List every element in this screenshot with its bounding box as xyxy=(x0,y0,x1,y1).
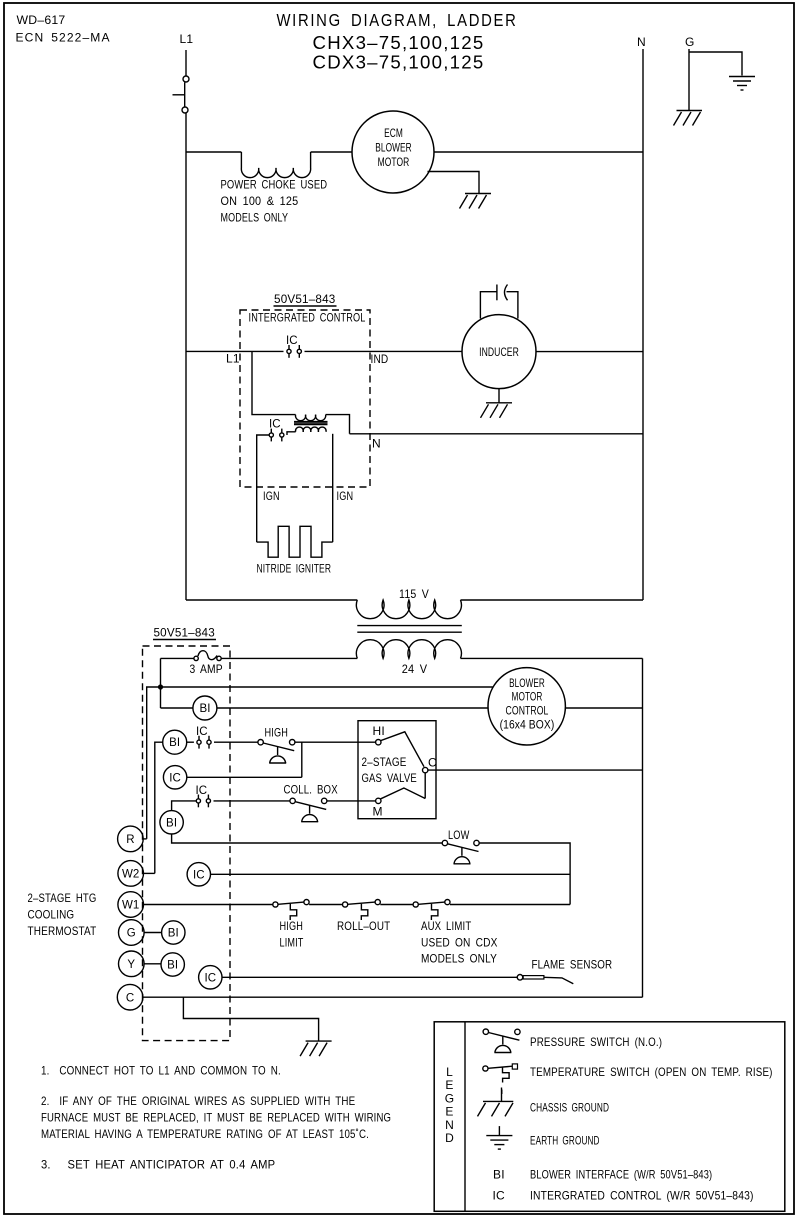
svg-text:50V51–843: 50V51–843 xyxy=(154,626,216,640)
svg-text:PRESSURE SWITCH (N.O.): PRESSURE SWITCH (N.O.) xyxy=(530,1035,662,1049)
contact IC on rung 2 xyxy=(287,345,302,358)
svg-text:ROLL–OUT: ROLL–OUT xyxy=(337,919,391,933)
svg-text:50V51–843: 50V51–843 xyxy=(274,292,336,306)
wire motor to N xyxy=(434,151,643,153)
svg-text:24 V: 24 V xyxy=(402,662,428,676)
svg-text:FLAME SENSOR: FLAME SENSOR xyxy=(532,958,613,972)
wire lower right rail xyxy=(642,658,644,997)
svg-text:HI: HI xyxy=(373,724,385,738)
disconnect switch tick xyxy=(173,94,185,96)
flame sensor contact xyxy=(517,975,523,981)
svg-text:L: L xyxy=(446,1065,453,1079)
wire rung 3 to N rail xyxy=(350,433,644,435)
svg-text:IGN: IGN xyxy=(263,489,280,503)
transformer T2 primary winding xyxy=(356,600,461,619)
svg-text:GAS VALVE: GAS VALVE xyxy=(362,771,417,785)
wire rung 3 to motor control xyxy=(217,707,488,709)
wire HIGH switch to gas valve HI xyxy=(295,741,376,743)
terminal HI xyxy=(376,740,381,745)
svg-text:HIGH: HIGH xyxy=(265,726,289,740)
chassis ground symbol bottom xyxy=(300,1041,332,1056)
pressure switch LOW xyxy=(442,840,479,864)
svg-text:IGN: IGN xyxy=(337,489,354,503)
wire valve C to right rail xyxy=(428,769,643,771)
wire rung 2 right to inducer xyxy=(305,350,463,352)
svg-text:3. SET HEAT ANTICIPATOR AT 0: 3. SET HEAT ANTICIPATOR AT 0.4 AMP xyxy=(41,1158,275,1172)
terminal C valve xyxy=(423,767,428,772)
svg-text:N: N xyxy=(637,35,646,49)
svg-text:ECM: ECM xyxy=(384,128,403,140)
svg-text:USED ON CDX: USED ON CDX xyxy=(421,936,498,950)
svg-text:E: E xyxy=(445,1105,453,1119)
wire rung6 to COLL BOX switch xyxy=(214,800,290,802)
svg-text:EARTH GROUND: EARTH GROUND xyxy=(530,1134,600,1148)
legend divider xyxy=(464,1022,466,1212)
temperature switch HIGH LIMIT xyxy=(273,900,309,921)
interface BI circle rung3 xyxy=(193,696,217,720)
wire igniter right lead xyxy=(332,434,334,542)
wire rung R feed xyxy=(147,687,493,839)
svg-text:C: C xyxy=(126,992,134,1004)
svg-text:E: E xyxy=(445,1078,453,1092)
svg-text:3 AMP: 3 AMP xyxy=(190,662,223,676)
wire fuse rung left xyxy=(161,657,194,659)
svg-text:LOW: LOW xyxy=(448,828,470,842)
disconnect switch upper contact xyxy=(183,76,189,82)
svg-text:BLOWER INTERFACE (W/R 50V51–84: BLOWER INTERFACE (W/R 50V51–843) xyxy=(530,1168,712,1182)
terminal R xyxy=(118,826,144,852)
svg-text:C: C xyxy=(428,756,437,770)
wire choke to motor xyxy=(311,151,352,153)
svg-text:IC: IC xyxy=(493,1189,506,1203)
pressure switch COLL BOX xyxy=(290,798,327,822)
temperature switch ROLL-OUT xyxy=(343,900,381,921)
wire L1 rail xyxy=(185,113,187,600)
wire LOW to drop xyxy=(479,843,570,905)
svg-text:N: N xyxy=(445,1118,454,1132)
svg-text:CONTROL: CONTROL xyxy=(506,706,549,718)
wire to roll-out xyxy=(309,904,342,906)
chassis ground symbol at ECM motor xyxy=(460,194,492,209)
flame sensor tip xyxy=(544,977,573,984)
svg-text:G: G xyxy=(685,35,695,49)
svg-text:HIGH: HIGH xyxy=(280,919,304,933)
svg-text:L1: L1 xyxy=(226,352,240,366)
wire left rail upper xyxy=(160,658,162,708)
svg-text:THERMOSTAT: THERMOSTAT xyxy=(28,924,97,938)
legend box xyxy=(434,1022,785,1212)
svg-text:IC: IC xyxy=(193,869,205,881)
zigzag HI to C xyxy=(381,732,425,767)
svg-text:COLL. BOX: COLL. BOX xyxy=(284,783,338,797)
legend title LEGEND stacked xyxy=(445,1065,455,1145)
disconnect switch blade xyxy=(184,82,186,106)
capacitor C1 leads xyxy=(480,292,497,319)
contact IC on igniter circuit xyxy=(269,429,284,442)
transformer T2 secondary winding xyxy=(356,640,461,659)
wire rung 1 left xyxy=(186,151,241,153)
terminal W2 xyxy=(118,861,144,887)
wire T1 secondary left lead xyxy=(287,432,296,435)
svg-text:INTERGRATED CONTROL (W/R 50V51: INTERGRATED CONTROL (W/R 50V51–843) xyxy=(530,1189,754,1203)
wire W2 feed vertical xyxy=(155,742,163,873)
wire rung6 left drop to BI xyxy=(172,801,197,811)
terminal Y xyxy=(119,951,145,977)
gas valve box 2-stage xyxy=(358,721,436,819)
wire aux limit to drop xyxy=(450,904,570,906)
transformer T1 core xyxy=(294,422,328,425)
svg-text:MODELS ONLY: MODELS ONLY xyxy=(421,952,497,966)
svg-text:BI: BI xyxy=(166,817,177,829)
integrated control IC circle W2 rung xyxy=(187,863,210,886)
wire rung 3 motor control to right rail xyxy=(565,707,642,709)
svg-text:AUX LIMIT: AUX LIMIT xyxy=(421,919,472,933)
integrated control IC circle rung5 xyxy=(163,766,186,789)
svg-text:TEMPERATURE SWITCH (OPEN ON TE: TEMPERATURE SWITCH (OPEN ON TEMP. RISE) xyxy=(530,1065,773,1079)
wire rung 2 left (L1 to IC contact) xyxy=(186,350,284,352)
legend earth ground symbol xyxy=(486,1126,512,1149)
wire C rung to right rail xyxy=(143,996,643,998)
terminal C xyxy=(117,984,143,1010)
capacitor C1 curved plate xyxy=(505,285,508,301)
svg-text:BI: BI xyxy=(199,703,210,715)
svg-text:BI: BI xyxy=(168,928,179,940)
svg-text:LIMIT: LIMIT xyxy=(280,936,304,950)
svg-text:BI: BI xyxy=(169,737,180,749)
wire G to grounds xyxy=(688,49,690,111)
wire G to BI xyxy=(144,932,162,934)
temperature switch AUX LIMIT xyxy=(413,900,450,921)
legend pressure switch symbol xyxy=(483,1029,520,1053)
wire 24V right lead to right rail xyxy=(461,657,643,659)
legend chassis ground symbol xyxy=(478,1088,514,1117)
svg-text:BLOWER: BLOWER xyxy=(509,678,545,690)
svg-text:BI: BI xyxy=(167,960,178,972)
svg-text:INDUCER: INDUCER xyxy=(479,347,519,359)
svg-text:2–STAGE HTG: 2–STAGE HTG xyxy=(28,891,97,905)
wire R stub xyxy=(143,838,147,840)
wire N rail xyxy=(642,49,644,600)
terminal W1 xyxy=(118,892,144,918)
svg-text:FURNACE MUST BE REPLACED, IT M: FURNACE MUST BE REPLACED, IT MUST BE REP… xyxy=(41,1111,391,1125)
wire W2 IC rung to drop xyxy=(211,873,571,875)
svg-text:1. CONNECT HOT TO L1 AND COMM: 1. CONNECT HOT TO L1 AND COMMON TO N. xyxy=(41,1064,281,1078)
power choke L1 xyxy=(241,152,310,178)
svg-text:MOTOR: MOTOR xyxy=(512,692,543,704)
svg-text:NITRIDE IGNITER: NITRIDE IGNITER xyxy=(257,562,332,576)
wire Y to BI xyxy=(144,963,161,965)
heating element nitride igniter xyxy=(257,526,333,557)
underline xyxy=(274,305,337,307)
svg-text:N: N xyxy=(372,437,381,451)
lower control dashed box xyxy=(143,646,231,1041)
svg-text:WD–617: WD–617 xyxy=(17,13,66,27)
wire junction drop to IC rung5 xyxy=(301,742,303,777)
svg-text:BLOWER: BLOWER xyxy=(375,143,411,155)
wire 24V left lead to fuse xyxy=(221,657,357,659)
wire BI to IC contact xyxy=(187,741,194,743)
integrated control IC circle flame rung xyxy=(199,966,222,989)
svg-text:POWER CHOKE USED: POWER CHOKE USED xyxy=(221,178,328,192)
svg-text:IC: IC xyxy=(169,772,181,784)
svg-text:MOTOR: MOTOR xyxy=(378,157,410,169)
chassis ground symbol at G xyxy=(674,111,703,126)
flame sensor rod xyxy=(523,976,544,979)
wire igniter left lead xyxy=(257,435,270,542)
svg-text:G: G xyxy=(127,928,136,940)
earth ground symbol top right xyxy=(729,77,755,91)
wire G top branch xyxy=(689,52,742,76)
svg-text:MATERIAL HAVING A TEMPERATURE: MATERIAL HAVING A TEMPERATURE RATING OF … xyxy=(41,1127,369,1141)
wire COLL BOX to gas valve M xyxy=(327,800,376,802)
svg-text:IC: IC xyxy=(269,419,281,431)
chassis ground symbol at inducer xyxy=(481,403,513,418)
wire drop from rung2 to transformer T1 xyxy=(252,351,296,414)
interface BI circle low rung xyxy=(160,811,183,834)
transformer T1 secondary winding xyxy=(296,427,327,432)
wire inducer to N xyxy=(536,351,643,353)
svg-text:2–STAGE: 2–STAGE xyxy=(362,755,407,769)
wire BI to LOW switch xyxy=(172,834,443,843)
svg-text:L1: L1 xyxy=(180,32,194,46)
svg-text:IC: IC xyxy=(286,335,298,347)
transformer T1 primary winding xyxy=(296,415,326,421)
wire upper ladder bottom right xyxy=(461,599,644,601)
svg-text:115 V: 115 V xyxy=(399,587,429,601)
pressure switch HIGH xyxy=(258,740,295,764)
disconnect switch lower contact xyxy=(182,107,188,113)
transformer T2 core xyxy=(357,626,462,633)
wire W1 rung left xyxy=(144,904,273,906)
svg-text:COOLING: COOLING xyxy=(28,908,75,922)
terminal G xyxy=(119,920,145,946)
fuse F1 element xyxy=(198,651,217,660)
underline xyxy=(153,639,216,641)
capacitor C1 flat plate xyxy=(496,285,498,301)
fuse F1 right contact xyxy=(217,656,221,660)
svg-text:W2: W2 xyxy=(122,869,139,881)
fuse F1 left contact xyxy=(194,656,198,660)
interface BI circle G xyxy=(162,921,185,944)
wire to aux limit xyxy=(380,904,413,906)
wire L1 lead xyxy=(185,50,187,76)
wire upper ladder bottom left xyxy=(186,599,357,601)
interface BI circle rung4 xyxy=(163,730,187,754)
svg-text:IC: IC xyxy=(196,726,208,738)
svg-text:R: R xyxy=(126,834,134,846)
integrated control dashed box xyxy=(240,310,370,487)
svg-text:IC: IC xyxy=(196,785,208,797)
motor M2 inducer xyxy=(462,315,536,389)
wire T1 primary right to N rung xyxy=(326,415,350,434)
svg-text:D: D xyxy=(445,1131,454,1145)
svg-text:CHASSIS GROUND: CHASSIS GROUND xyxy=(530,1101,609,1115)
svg-text:ON 100 & 125: ON 100 & 125 xyxy=(221,194,299,208)
wire rung 3 left xyxy=(161,707,193,709)
svg-text:ECN 5222–MA: ECN 5222–MA xyxy=(16,31,111,45)
svg-text:CHX3–75,100,125: CHX3–75,100,125 xyxy=(313,33,485,53)
zigzag M to C xyxy=(381,788,426,799)
wire W2 stub xyxy=(144,872,155,874)
svg-text:IC: IC xyxy=(204,972,216,984)
svg-text:CDX3–75,100,125: CDX3–75,100,125 xyxy=(313,53,485,73)
wire inducer ground lead xyxy=(498,389,500,403)
svg-text:IND: IND xyxy=(371,352,389,366)
wire motor ground lead xyxy=(428,172,480,194)
svg-text:2. IF ANY OF THE ORIGINAL WIR: 2. IF ANY OF THE ORIGINAL WIRES AS SUPPL… xyxy=(41,1094,355,1108)
svg-text:WIRING DIAGRAM, LADDER: WIRING DIAGRAM, LADDER xyxy=(276,10,517,30)
contact IC rung6 xyxy=(196,795,210,808)
svg-text:MODELS ONLY: MODELS ONLY xyxy=(221,211,289,225)
svg-text:INTERGRATED CONTROL: INTERGRATED CONTROL xyxy=(249,313,366,325)
terminal M xyxy=(376,798,381,803)
motor control circle U2 blower motor control xyxy=(488,668,565,745)
svg-text:M: M xyxy=(373,805,383,819)
interface BI circle Y xyxy=(161,953,184,976)
svg-text:W1: W1 xyxy=(122,900,139,912)
wire C ground branch xyxy=(183,997,318,1041)
svg-text:G: G xyxy=(445,1091,455,1105)
contact IC rung4 xyxy=(197,736,211,749)
legend temperature switch symbol xyxy=(483,1064,518,1094)
wire flame sensor rung xyxy=(222,976,517,978)
svg-text:(16x4 BOX): (16x4 BOX) xyxy=(500,720,555,732)
junction dot xyxy=(158,684,163,689)
svg-text:Y: Y xyxy=(127,959,135,971)
wire C terminal drop xyxy=(424,773,426,799)
svg-text:BI: BI xyxy=(493,1168,505,1182)
wire IC to HIGH switch xyxy=(214,741,258,743)
motor M1 ECM blower motor xyxy=(352,111,434,193)
wire rung5 xyxy=(187,776,302,778)
